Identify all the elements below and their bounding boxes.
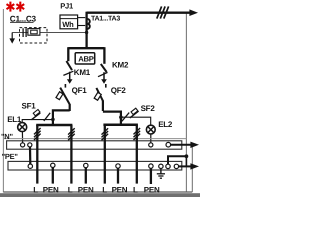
terminal on N bus for N output bbox=[166, 142, 171, 147]
terminal on N bus for EL2 bbox=[149, 143, 153, 147]
svg-text:KM2: KM2 bbox=[112, 61, 129, 70]
wire PEN4 drop bbox=[150, 168, 152, 184]
disconnect slash right bbox=[122, 113, 129, 122]
disconnect slash left bbox=[44, 113, 50, 121]
terminal on PE bus for earth bbox=[159, 164, 163, 168]
svg-text:Wh: Wh bbox=[62, 20, 74, 29]
svg-text:PEN: PEN bbox=[144, 186, 160, 195]
meter Wh bbox=[60, 15, 78, 29]
svg-text:PJ1: PJ1 bbox=[60, 2, 74, 11]
svg-text:L: L bbox=[33, 186, 38, 195]
feeder L4 bbox=[136, 125, 138, 184]
bus bar 1 bbox=[36, 124, 72, 127]
svg-text:SF2: SF2 bbox=[141, 104, 156, 113]
top wire bbox=[87, 11, 191, 13]
PE link up wire to border bbox=[168, 156, 186, 164]
three-phase slashes on top wire bbox=[157, 6, 169, 18]
svg-text:"N": "N" bbox=[1, 132, 13, 141]
thin grey line above N bus bbox=[3, 138, 186, 140]
svg-text:"PE": "PE" bbox=[2, 152, 19, 161]
QF2 jog wire bbox=[103, 112, 121, 125]
frame bottom line bbox=[3, 191, 192, 193]
svg-text:TA1...TA3: TA1...TA3 bbox=[91, 16, 120, 23]
svg-text:KM1: KM1 bbox=[74, 68, 91, 77]
terminal on PE bus for link up bbox=[166, 164, 170, 168]
feeder L2 bbox=[70, 125, 72, 184]
breaker QF1 bbox=[64, 84, 66, 88]
surge module dashed box bbox=[20, 28, 48, 43]
varistor box bbox=[28, 29, 40, 36]
ABP crossbar bbox=[68, 47, 104, 49]
three-phase mark on feeder L1 bbox=[34, 128, 41, 140]
frame outer right edge bbox=[191, 143, 193, 193]
wire PEN2 drop bbox=[85, 168, 87, 184]
wire PEN3 drop bbox=[117, 168, 119, 183]
contactor KM2 bbox=[103, 47, 105, 64]
ground arrow left bbox=[11, 33, 13, 40]
lamp circuit left: wire bbox=[22, 120, 53, 126]
feeder L3 bbox=[104, 125, 106, 184]
capacitor C bbox=[22, 28, 24, 37]
terminal on PE bus PEN1 bbox=[51, 163, 55, 167]
frame left border bbox=[2, 9, 4, 192]
svg-text:L: L bbox=[102, 186, 107, 195]
QF1 jog wire bbox=[53, 110, 70, 125]
three-phase mark on feeder L4 bbox=[134, 128, 141, 140]
terminal on N bus for EL1 bbox=[21, 143, 25, 147]
N to PE link wire bbox=[29, 147, 31, 164]
lamp EL2 stem to N bbox=[150, 134, 152, 143]
N output arrow bbox=[171, 144, 191, 146]
lamp circuit right: wire bbox=[121, 117, 151, 125]
lamp EL2 bbox=[146, 125, 155, 134]
frame bottom grey bar bbox=[0, 193, 200, 197]
breaker QF2 bbox=[105, 84, 107, 88]
svg-text:QF2: QF2 bbox=[111, 86, 127, 95]
PE output arrow bbox=[179, 165, 191, 167]
svg-text:PEN: PEN bbox=[78, 186, 94, 195]
svg-text:EL1: EL1 bbox=[7, 115, 22, 124]
svg-text:SF1: SF1 bbox=[22, 101, 37, 110]
node junction SF1 wire bbox=[51, 118, 55, 122]
contactor KM1 bbox=[67, 47, 69, 61]
svg-text:EL2: EL2 bbox=[158, 120, 173, 129]
svg-text:L: L bbox=[68, 186, 73, 195]
node junction SF2 wire bbox=[119, 115, 123, 119]
three-phase mark on feeder L2 bbox=[68, 128, 75, 140]
main bus vertical bbox=[85, 12, 87, 49]
wire PEN1 drop bbox=[52, 167, 54, 183]
switch SF2 bbox=[130, 111, 139, 118]
svg-text:L: L bbox=[133, 186, 138, 195]
CT TA1...TA3 bbox=[87, 19, 90, 29]
svg-text:PEN: PEN bbox=[112, 186, 128, 195]
terminal on PE bus PEN3 bbox=[116, 164, 120, 168]
svg-text:ABP: ABP bbox=[78, 55, 94, 64]
svg-text:PEN: PEN bbox=[43, 186, 59, 195]
lamp EL1 bbox=[18, 123, 27, 132]
ground symbol bbox=[160, 169, 162, 174]
svg-text:QF1: QF1 bbox=[72, 86, 88, 95]
terminal on PE bus for N-PE link bbox=[28, 164, 32, 168]
junction dot wire/bus bbox=[85, 31, 88, 34]
feeder L1 bbox=[36, 125, 38, 184]
switch SF1 bbox=[32, 113, 41, 120]
terminal on PE bus for PE output bbox=[174, 164, 178, 168]
PE busbar band bbox=[8, 161, 182, 170]
terminal on PE bus PEN2 bbox=[84, 163, 88, 167]
N busbar band bbox=[7, 141, 182, 149]
meter stubs bbox=[78, 17, 86, 19]
bus bar 2 bbox=[103, 123, 137, 126]
wire through module bbox=[12, 32, 86, 34]
terminal on N bus for N-PE link bbox=[28, 143, 32, 147]
red asterisks bbox=[7, 2, 25, 12]
three-phase mark on feeder L3 bbox=[102, 128, 109, 140]
terminal on PE bus PEN4 bbox=[149, 164, 153, 168]
ABP box bbox=[75, 53, 95, 64]
frame right border bbox=[185, 13, 187, 193]
lamp EL1 stem to N bbox=[21, 132, 23, 144]
